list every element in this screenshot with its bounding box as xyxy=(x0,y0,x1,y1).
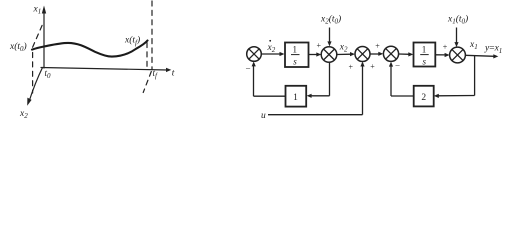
axis t arrowhead xyxy=(166,68,171,72)
dashed projection diagonal at t0 xyxy=(33,22,44,48)
integrator block 1/s (A) xyxy=(285,43,309,68)
feedback tap from output down xyxy=(474,56,476,96)
svg-text:t0: t0 xyxy=(45,68,52,80)
feedback wire block1 to S1 xyxy=(254,95,286,97)
summing junction S3 xyxy=(355,47,370,62)
svg-text:1: 1 xyxy=(422,44,427,54)
summing junction S4 xyxy=(383,46,398,61)
dashed projection diagonal at tf xyxy=(143,72,151,93)
svg-text:x2: x2 xyxy=(339,42,348,53)
svg-text:+: + xyxy=(317,41,322,50)
output wire y = x1 xyxy=(465,55,494,56)
wire S4 to integrator B xyxy=(399,53,410,55)
dashed vertical at tf (curve end to axis) xyxy=(146,43,148,70)
svg-text:+: + xyxy=(349,63,354,72)
svg-text:s: s xyxy=(422,56,426,66)
feedback tap from S2 bottom xyxy=(329,62,331,96)
wire S2 to S3 xyxy=(337,53,352,55)
feedback wire block2 to S4 xyxy=(391,95,414,97)
svg-text:x(tf): x(tf) xyxy=(124,35,140,47)
x1(t0) drop line into S5 xyxy=(456,28,458,43)
axis t xyxy=(41,68,168,71)
dashed projection vertical at t0 xyxy=(32,53,34,94)
wire integrator B to S5 xyxy=(435,54,446,56)
gain block 2 xyxy=(414,86,434,107)
svg-text:s: s xyxy=(293,56,297,66)
svg-text:2: 2 xyxy=(421,93,426,103)
integrator block 1/s (B) xyxy=(414,43,436,67)
wire integrator A to S2 xyxy=(309,54,319,56)
summing junction S2 xyxy=(321,47,337,63)
x2(t0) drop line into S2 xyxy=(329,28,331,43)
svg-text:x2(t0): x2(t0) xyxy=(320,13,341,25)
svg-text:x1(t0): x1(t0) xyxy=(447,13,468,25)
svg-text:+: + xyxy=(443,42,448,51)
feedback wire to block 1 xyxy=(310,95,330,97)
svg-text:x1: x1 xyxy=(469,40,478,51)
axis x2 xyxy=(29,68,42,102)
svg-text:x(t0): x(t0) xyxy=(9,41,27,53)
axis x1 arrowhead xyxy=(42,6,46,14)
feedback wire to block 2 xyxy=(437,95,474,97)
u input wire xyxy=(268,114,363,116)
trajectory curve x(t) xyxy=(32,41,148,57)
svg-text:y=x1: y=x1 xyxy=(484,44,502,55)
wire S1 to integrator A xyxy=(261,53,281,55)
summing junction S5 xyxy=(450,47,466,63)
svg-text:u: u xyxy=(261,111,266,121)
wire S3 to S4 xyxy=(370,53,380,55)
svg-text:−: − xyxy=(246,64,251,74)
axis x1 xyxy=(43,10,45,68)
summing junction S1 xyxy=(247,47,262,62)
svg-text:t: t xyxy=(172,69,175,79)
axis x2 arrowhead xyxy=(27,98,31,106)
gain block 1 xyxy=(286,86,307,107)
svg-text:1: 1 xyxy=(293,93,298,103)
dot of xdot2 xyxy=(269,40,271,42)
svg-text:−: − xyxy=(395,60,400,70)
svg-text:+: + xyxy=(370,62,375,71)
svg-text:x1: x1 xyxy=(33,4,42,15)
dashed tf plane vertical xyxy=(151,1,153,69)
svg-text:1: 1 xyxy=(293,44,298,54)
svg-text:+: + xyxy=(375,41,380,50)
svg-text:x2: x2 xyxy=(19,109,28,120)
svg-text:x2: x2 xyxy=(267,43,276,54)
